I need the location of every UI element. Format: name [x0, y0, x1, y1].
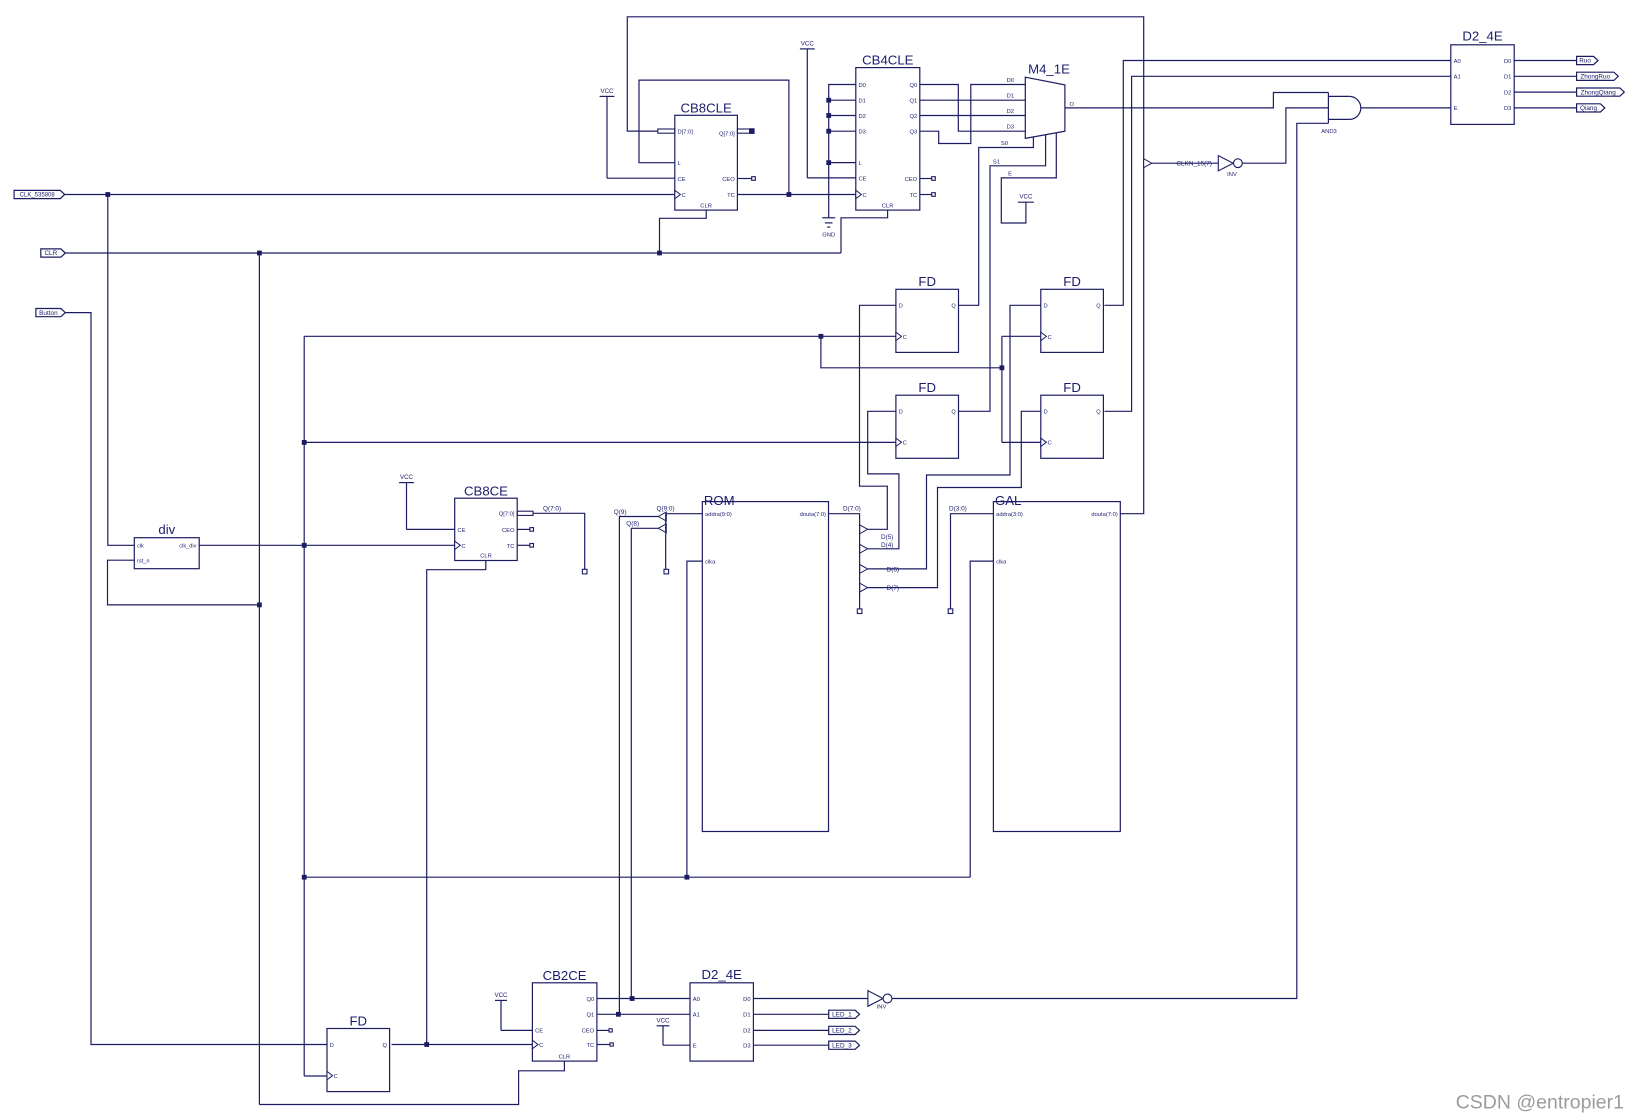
svg-text:D(7:0): D(7:0)	[843, 506, 861, 513]
pin CB8CE C clock triangle	[455, 541, 461, 549]
pin label D2_4E bottom D2	[743, 1029, 750, 1035]
net label D(4)	[881, 542, 893, 549]
input port tag CLK_535808	[14, 190, 65, 198]
svg-text:D: D	[1044, 304, 1048, 310]
svg-text:FD: FD	[350, 1013, 368, 1028]
svg-text:D2: D2	[1007, 109, 1014, 115]
wire CB2CE CEO stub	[597, 1029, 609, 1031]
pin label CB8CLE C	[682, 193, 686, 199]
pin label CB8CLE CE	[678, 177, 686, 183]
svg-text:FD: FD	[1063, 274, 1081, 289]
pin label div clk_div	[179, 544, 196, 550]
label CB8CLE title	[680, 101, 732, 116]
wire clk_div to FD4 C	[1002, 441, 1041, 443]
pin label CB8CLE TC	[727, 193, 735, 199]
svg-text:TC: TC	[727, 193, 735, 199]
svg-text:AND3: AND3	[1321, 129, 1336, 135]
output port tag LED_1	[829, 1010, 860, 1018]
terminal CB2CE CEO	[609, 1029, 612, 1032]
svg-text:CEO: CEO	[582, 1029, 595, 1035]
pin label CB2CE Q0	[586, 997, 594, 1003]
pin label CB4CLE D3	[859, 130, 866, 136]
wire clk_div vertical spine	[303, 336, 305, 1076]
power VCC CB2CE CE	[494, 992, 508, 1031]
junction clk_div ROM clka branch	[685, 875, 690, 880]
pin label CB4CLE D1	[859, 99, 866, 105]
svg-text:INV: INV	[877, 1004, 887, 1010]
svg-text:D2: D2	[743, 1029, 750, 1035]
pin label D2_4E top D1	[1504, 75, 1511, 81]
svg-text:ZhongQiang: ZhongQiang	[1581, 89, 1617, 96]
svg-text:CSDN @entropier1: CSDN @entropier1	[1456, 1092, 1624, 1114]
wire VCC to D2_4E bottom E	[663, 1044, 690, 1046]
wire GND rail to D3	[829, 130, 856, 132]
wire D2_4E D3 to Qiang tag	[1514, 107, 1576, 109]
svg-text:CEO: CEO	[905, 177, 918, 183]
pin label CB2CE C	[539, 1043, 543, 1049]
label D2_4E top title	[1462, 29, 1503, 44]
power VCC CB4CLE CE	[800, 40, 815, 178]
junction TC loop	[787, 192, 792, 197]
bus D(7:0) from ROM douta	[829, 514, 860, 610]
wire clk_div jog to FD2 FD4 clocks	[821, 336, 1002, 368]
label INV top	[1227, 172, 1237, 178]
bus tap CLKN_15(7)	[1144, 159, 1152, 168]
svg-text:CLR: CLR	[559, 1054, 571, 1060]
junction CLR vertical	[257, 251, 262, 256]
svg-text:D: D	[330, 1043, 334, 1049]
wire clk_div clka rail	[304, 876, 970, 878]
svg-text:CB8CLE: CB8CLE	[680, 101, 732, 116]
junction GND rail D3	[826, 129, 831, 134]
svg-text:CB2CE: CB2CE	[543, 968, 587, 983]
component ROM body	[702, 502, 828, 832]
net label D(7:0)	[843, 506, 861, 513]
wire mux O to AND3 top input	[1065, 93, 1329, 108]
junction clk_div clka rail	[302, 875, 307, 880]
net label D(3:0)	[949, 506, 967, 513]
svg-text:A1: A1	[1454, 75, 1461, 81]
svg-text:TC: TC	[586, 1043, 594, 1049]
input port tag Button	[36, 309, 65, 317]
wire VCC to CB8CLE CE	[607, 177, 675, 179]
input port tag CLR	[41, 249, 66, 257]
net label Q(9)	[614, 509, 627, 516]
component D2_4E bottom body	[690, 983, 753, 1061]
bus tap D(7)	[860, 583, 868, 592]
pin label ROM douta(7:0)	[800, 512, 826, 518]
wire CB2CE Q1 to D2_4E A1	[597, 1013, 690, 1015]
flip-flop FD2 (upper right)	[1041, 274, 1104, 352]
pin label CB8CE TC	[507, 544, 515, 550]
terminal CB4CLE CEO	[932, 177, 936, 181]
svg-text:VCC: VCC	[656, 1017, 670, 1024]
svg-text:S0: S0	[1001, 141, 1008, 147]
pin label CB4CLE Q0	[909, 83, 917, 89]
wire clk_div to ROM clka	[687, 561, 702, 877]
wire net CLR rail	[65, 252, 841, 254]
junction CLR at CB8CLE branch	[657, 251, 662, 256]
svg-text:CLR: CLR	[480, 554, 492, 560]
svg-text:GND: GND	[822, 233, 835, 239]
wire VCC to CB4CLE CE	[807, 177, 856, 179]
wire CB2CE TC stub	[597, 1044, 610, 1046]
svg-text:D1: D1	[743, 1013, 750, 1019]
wire D2_4E D2 to LED_2 tag	[753, 1029, 828, 1031]
svg-text:Ruo: Ruo	[1579, 58, 1591, 65]
wire CB4CLE TC stub	[920, 194, 932, 196]
pin label D2_4E bottom A0	[693, 997, 700, 1003]
svg-text:Q: Q	[951, 304, 956, 310]
svg-text:CE: CE	[859, 176, 867, 182]
power VCC mux E	[1018, 194, 1034, 203]
svg-text:Q: Q	[1096, 304, 1101, 310]
pin CB8CE Q bus stub	[517, 511, 533, 515]
junction CLK_535808 at divider branch	[105, 192, 110, 197]
svg-text:Q[7:0]: Q[7:0]	[719, 131, 735, 137]
bus tap Q(9)	[658, 512, 666, 521]
bus end terminal D(3:0)	[948, 609, 953, 614]
junction GND rail L	[826, 160, 831, 165]
svg-text:CB8CE: CB8CE	[464, 483, 508, 498]
label D2_4E bottom title	[702, 967, 743, 982]
svg-text:clka: clka	[996, 560, 1007, 566]
svg-text:E: E	[693, 1044, 697, 1050]
wire S0 net FD1 Q to mux	[959, 137, 1034, 305]
svg-text:Qiang: Qiang	[1580, 105, 1597, 112]
svg-text:D2_4E: D2_4E	[702, 967, 743, 982]
svg-text:D: D	[899, 410, 903, 416]
pin label div rst_n	[137, 559, 149, 565]
terminal CB2CE TC	[610, 1043, 613, 1046]
wire D2_4E D1 to ZhongRuo tag	[1514, 75, 1576, 77]
pin label D2_4E bottom E	[693, 1044, 697, 1050]
pin label CB8CLE CLR	[700, 203, 712, 209]
junction clk_div at div output	[302, 543, 307, 548]
wire GND rail to D2	[829, 115, 856, 117]
flip-flop FD1 (upper left)	[896, 274, 959, 352]
flip-flop FD3 (lower left)	[896, 380, 959, 458]
svg-text:clk_div: clk_div	[179, 544, 196, 550]
wire clk_div to FD1 C	[304, 335, 896, 337]
wire D2_4E D3 to LED_3 tag	[753, 1044, 828, 1046]
label GAL title	[995, 493, 1021, 508]
wire net CLR to CB2CE CLR	[259, 1061, 564, 1104]
bus tap D(4)	[860, 544, 868, 553]
svg-text:Q: Q	[1096, 410, 1101, 416]
wire CB8CE CLR from bottom FD net	[427, 561, 486, 1045]
pin label D2_4E top D3	[1504, 106, 1511, 112]
svg-text:D0: D0	[859, 83, 866, 89]
pin CB8CLE C clock triangle	[675, 190, 681, 198]
pin label CB2CE CLR	[559, 1054, 571, 1060]
pin label CB8CE C	[461, 544, 465, 550]
pin label D2_4E top A0	[1454, 59, 1461, 65]
bus tap D(5)	[860, 525, 868, 534]
pin label ROM clka	[705, 560, 716, 566]
svg-text:douta(7:0): douta(7:0)	[1091, 512, 1117, 518]
bus Q(7:0)	[533, 513, 585, 570]
pin label M4 S0	[1001, 141, 1008, 147]
pin label D2_4E top A1	[1454, 75, 1461, 81]
wire bottom FD Q to CB2CE C	[392, 1044, 533, 1046]
component CB8CE body	[455, 498, 518, 560]
svg-text:FD: FD	[1063, 380, 1081, 395]
pin label CB4CLE Q1	[909, 99, 917, 105]
pin CB2CE C clock triangle	[532, 1040, 538, 1048]
svg-text:C: C	[1048, 335, 1052, 341]
pin label CB8CE CEO	[502, 528, 515, 534]
power VCC CB8CLE CE	[600, 88, 615, 178]
wire net CLR vertical left	[258, 253, 260, 1105]
svg-text:FD: FD	[918, 380, 936, 395]
svg-text:C: C	[863, 193, 867, 199]
pin label CB2CE TC	[586, 1043, 594, 1049]
svg-text:TC: TC	[507, 544, 515, 550]
pin label div clk	[137, 544, 144, 550]
wire net CLK_535808 horizontal to CB8CLE C	[65, 194, 675, 196]
svg-text:clka: clka	[705, 560, 716, 566]
svg-text:A0: A0	[693, 997, 700, 1003]
pin CB4CLE C clock triangle	[856, 190, 862, 198]
svg-text:D(5): D(5)	[881, 534, 893, 541]
svg-text:Q2: Q2	[909, 114, 917, 120]
junction clk_div FD1 C branch	[819, 334, 824, 339]
terminal CB4CLE TC	[932, 193, 936, 197]
svg-text:div: div	[158, 522, 175, 537]
svg-text:Q[7:0]: Q[7:0]	[499, 512, 515, 518]
svg-text:addra(9:0): addra(9:0)	[705, 512, 732, 518]
svg-text:Q(9): Q(9)	[614, 509, 627, 516]
wire net CLK_535808 vertical to div clk	[108, 195, 135, 546]
wire CB8CLE CLR to CLR rail	[660, 210, 707, 253]
svg-text:Q1: Q1	[586, 1013, 594, 1019]
svg-text:Button: Button	[39, 310, 58, 317]
svg-text:D1: D1	[1504, 75, 1511, 81]
wire D2_4E D0 to INV	[753, 998, 868, 1000]
svg-text:E: E	[1454, 106, 1458, 112]
svg-text:CLR: CLR	[882, 203, 894, 209]
wire INV out to AND3 middle input	[1242, 108, 1328, 163]
svg-text:C: C	[903, 441, 907, 447]
svg-text:VCC: VCC	[1019, 194, 1033, 201]
svg-text:Q(7:0): Q(7:0)	[543, 506, 561, 513]
pin label CB8CLE L	[678, 161, 682, 167]
net label Q(7:0)	[543, 506, 561, 513]
wire D2_4E D1 to LED_1 tag	[753, 1013, 828, 1015]
pin label ROM addra(9:0)	[705, 512, 732, 518]
wire Q(8) from tap to CB2CE Q0	[631, 528, 659, 998]
pin label CB4CLE D0	[859, 83, 866, 89]
wire FD3 D from D(4) tap	[868, 411, 899, 549]
wire CB4CLE CEO stub	[920, 178, 932, 180]
bus tap D(6)	[860, 564, 868, 573]
svg-text:CLR: CLR	[44, 250, 57, 257]
wire clk_div to bottom FD C	[304, 1075, 327, 1077]
wire CB8CLE CEO stub	[737, 178, 752, 180]
wire clk_div to FD2 C	[1002, 335, 1041, 337]
label AND3	[1321, 129, 1336, 135]
svg-text:C: C	[682, 193, 686, 199]
svg-text:Q0: Q0	[909, 83, 917, 89]
label INV bottom	[877, 1004, 887, 1010]
svg-text:C: C	[539, 1043, 543, 1049]
component div body	[134, 538, 199, 569]
svg-text:addra(3:0): addra(3:0)	[996, 512, 1023, 518]
label CB2CE title	[543, 968, 587, 983]
pin label M4 D2	[1007, 109, 1014, 115]
svg-text:CE: CE	[457, 528, 465, 534]
pin label M4 E	[1008, 172, 1012, 178]
svg-text:E: E	[1008, 172, 1012, 178]
pin label D2_4E bottom A1	[693, 1013, 700, 1019]
svg-text:VCC: VCC	[494, 992, 508, 999]
power VCC CB8CE CE	[399, 474, 414, 529]
wire net Button to FD D	[65, 313, 327, 1045]
svg-text:D1: D1	[1007, 94, 1014, 100]
svg-text:D3: D3	[859, 130, 866, 136]
svg-text:FD: FD	[918, 274, 936, 289]
svg-text:D3: D3	[1504, 106, 1511, 112]
wire CLKN_15(7) to INV input	[1152, 162, 1219, 164]
net label Q(9:0)	[657, 506, 675, 513]
pin label D2_4E bottom D0	[743, 997, 750, 1003]
wire clk_div to FD3 C	[304, 441, 896, 443]
svg-text:A0: A0	[1454, 59, 1461, 65]
junction GND rail D1	[826, 98, 831, 103]
output port tag LED_2	[829, 1026, 860, 1034]
svg-text:C: C	[334, 1074, 338, 1080]
pin label M4 S1	[993, 159, 1000, 165]
label M4_1E title	[1028, 62, 1070, 77]
pin label CB8CLE Q[7:0]	[719, 131, 735, 137]
wire CB8CE TC stub	[517, 544, 530, 546]
svg-text:clk: clk	[137, 544, 144, 550]
wire clk_div to GAL clka	[970, 561, 993, 877]
svg-text:D(4): D(4)	[881, 542, 893, 549]
component CB2CE body	[532, 983, 597, 1061]
wire Q(9) from tap to CB2CE Q1	[619, 517, 658, 1015]
wire VCC to CB8CE CE	[407, 528, 455, 530]
bus end terminal Q(7:0)	[582, 569, 587, 574]
pin CB8CLE Q[7:0] bus stub	[737, 129, 753, 133]
output port tag Ruo	[1577, 56, 1598, 64]
wire div clk_div output to CB8CE C	[199, 544, 455, 546]
junction bottom FD Q with CB8CE CLR	[424, 1042, 429, 1047]
wire INV bottom out to AND3 bottom input	[892, 123, 1329, 998]
net label Q(8)	[626, 521, 639, 528]
pin label M4 D0	[1007, 78, 1014, 84]
pin label M4 D1	[1007, 94, 1014, 100]
svg-text:S1: S1	[993, 159, 1000, 165]
pin label M4 O	[1070, 102, 1075, 108]
wire net CLR to CB4CLE CLR	[841, 210, 888, 253]
junction clk_div FD2 FD4 node	[1000, 365, 1005, 370]
flip-flop FD4 (lower right)	[1041, 380, 1104, 458]
wire FD2 Q to D2_4E A0	[1105, 61, 1451, 306]
svg-text:D3: D3	[743, 1044, 750, 1050]
wire VCC to CB2CE CE	[501, 1029, 532, 1031]
output port tag ZhongRuo	[1577, 72, 1619, 80]
net label CLKN_15(7)	[1176, 161, 1212, 168]
svg-text:D(3:0): D(3:0)	[949, 506, 967, 513]
svg-text:Q: Q	[951, 410, 956, 416]
pin label CB8CE CE	[457, 528, 465, 534]
wire TC to L feedback loop	[639, 80, 789, 194]
svg-text:Q: Q	[382, 1043, 387, 1049]
bus D(3:0) to GAL addra	[951, 514, 994, 610]
svg-text:CEO: CEO	[502, 528, 515, 534]
svg-text:O: O	[1070, 102, 1075, 108]
watermark CSDN @entropier1	[1456, 1092, 1624, 1114]
svg-text:D: D	[1044, 410, 1048, 416]
svg-text:CLR: CLR	[700, 203, 712, 209]
flip-flop FD bottom	[327, 1013, 390, 1091]
svg-text:D2_4E: D2_4E	[1462, 29, 1503, 44]
component CB8CLE body	[675, 115, 738, 210]
svg-text:Q(8): Q(8)	[626, 521, 639, 528]
component AND3 gate	[1328, 93, 1360, 124]
svg-text:LED_3: LED_3	[832, 1042, 852, 1049]
svg-text:LED_2: LED_2	[832, 1028, 852, 1035]
component CB4CLE body	[856, 68, 920, 211]
pin label D2_4E bottom D1	[743, 1013, 750, 1019]
pin label CB4CLE D2	[859, 114, 866, 120]
label CB4CLE title	[862, 52, 914, 67]
svg-text:ROM: ROM	[704, 493, 735, 508]
svg-text:CLKN_15(7): CLKN_15(7)	[1176, 161, 1212, 168]
svg-text:INV: INV	[1227, 172, 1237, 178]
svg-text:Q3: Q3	[909, 130, 917, 136]
svg-text:Q(9:0): Q(9:0)	[657, 506, 675, 513]
svg-text:D(6): D(6)	[887, 566, 899, 573]
wire FD1 D from D(5) tap	[860, 305, 896, 529]
wire CB4CLE Q0 to M4 D3	[920, 85, 1026, 132]
svg-text:M4_1E: M4_1E	[1028, 62, 1070, 77]
pin label CB8CLE D[7:0]	[678, 129, 694, 135]
pin label D2_4E top D2	[1504, 90, 1511, 96]
svg-text:TC: TC	[909, 193, 917, 199]
svg-text:D3: D3	[1007, 125, 1014, 131]
svg-text:CB4CLE: CB4CLE	[862, 52, 914, 67]
svg-text:C: C	[461, 544, 465, 550]
pin label M4 D3	[1007, 125, 1014, 131]
pin label CB8CE CLR	[480, 554, 492, 560]
svg-text:C: C	[903, 335, 907, 341]
svg-text:D1: D1	[859, 99, 866, 105]
svg-text:CE: CE	[678, 177, 686, 183]
label CB8CE title	[464, 483, 508, 498]
output port tag Qiang	[1577, 104, 1605, 112]
wire S1 net FD3 Q to mux	[959, 135, 1046, 412]
svg-text:D: D	[899, 304, 903, 310]
label div title	[158, 522, 175, 537]
junction Q0 with Q(8) riser	[630, 996, 635, 1001]
svg-text:CE: CE	[535, 1029, 543, 1035]
wire GND rail to CB4CLE D0	[829, 85, 856, 218]
svg-text:D(7): D(7)	[887, 585, 899, 592]
pin label D2_4E top E	[1454, 106, 1458, 112]
junction GND rail D2	[826, 113, 831, 118]
output port tag LED_3	[829, 1041, 860, 1049]
bus CLKN_15 from GAL douta to CB8CLE D	[627, 17, 1143, 514]
component INV top inverter	[1218, 156, 1242, 171]
svg-text:Q1: Q1	[909, 99, 917, 105]
wire FD4 Q to D2_4E A1	[1105, 76, 1451, 411]
ground GND symbol	[822, 218, 835, 239]
net label D(6)	[887, 566, 899, 573]
pin label CB4CLE Q3	[909, 130, 917, 136]
